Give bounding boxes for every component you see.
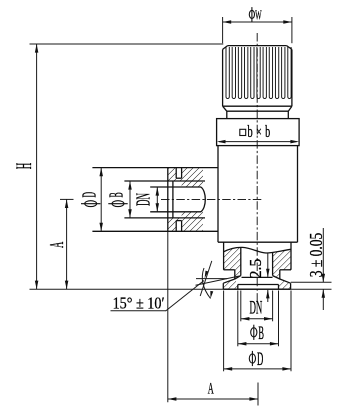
svg-text:3 ± 0.05: 3 ± 0.05 (306, 233, 326, 278)
svg-text:D: D (257, 350, 263, 370)
svg-text:D: D (79, 192, 100, 198)
svg-text:DN: DN (134, 193, 155, 206)
svg-text:15° ± 10′: 15° ± 10′ (113, 293, 165, 312)
svg-text:W: W (255, 8, 262, 23)
svg-text:×: × (256, 124, 262, 140)
svg-text:A: A (46, 241, 68, 248)
svg-text:b: b (247, 122, 252, 141)
svg-text:A: A (208, 380, 214, 397)
svg-text:B: B (107, 192, 128, 197)
svg-text:2.5: 2.5 (246, 259, 265, 279)
svg-text:b: b (265, 122, 270, 141)
svg-text:H: H (11, 163, 36, 170)
svg-text:DN: DN (250, 299, 263, 319)
svg-text:B: B (258, 324, 264, 344)
